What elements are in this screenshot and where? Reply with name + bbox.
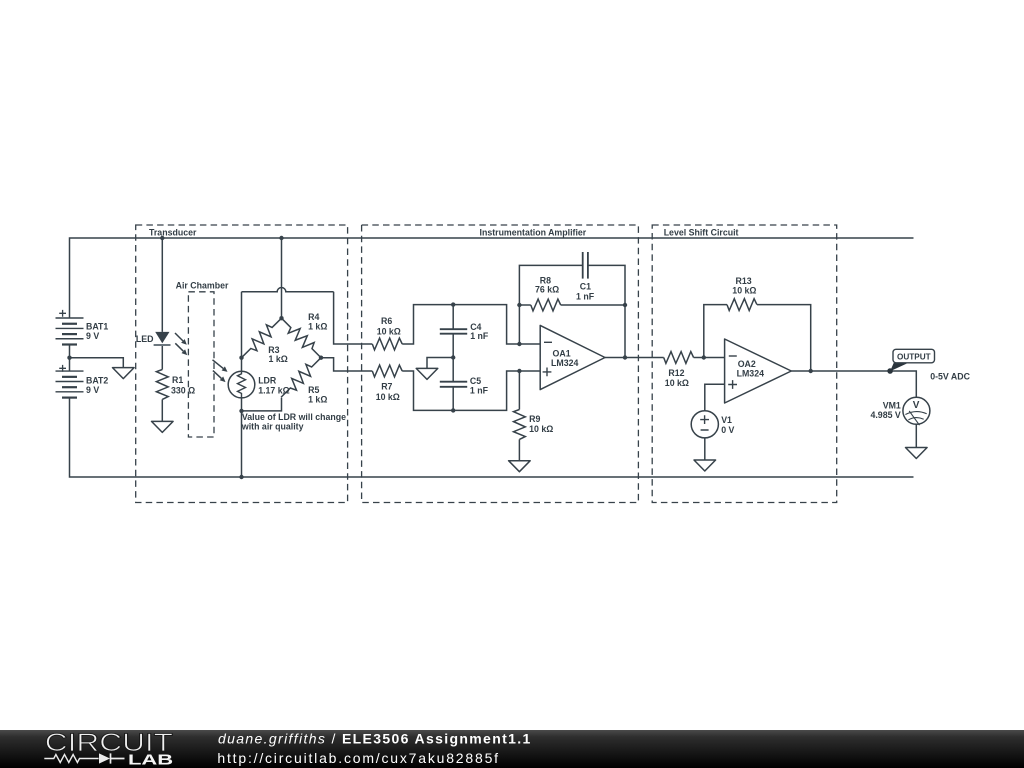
svg-text:1 kΩ: 1 kΩ: [308, 394, 327, 404]
svg-text:Transducer: Transducer: [149, 227, 197, 237]
svg-text:Level Shift Circuit: Level Shift Circuit: [664, 227, 739, 237]
svg-text:Instrumentation Amplifier: Instrumentation Amplifier: [480, 227, 587, 237]
svg-text:1 nF: 1 nF: [576, 291, 595, 301]
svg-text:1.17 kΩ: 1.17 kΩ: [258, 385, 290, 395]
svg-text:R7: R7: [381, 382, 392, 392]
svg-text:330 Ω: 330 Ω: [171, 385, 195, 395]
svg-text:10 kΩ: 10 kΩ: [732, 286, 756, 296]
svg-text:10 kΩ: 10 kΩ: [376, 392, 400, 402]
svg-text:LAB: LAB: [128, 752, 173, 768]
svg-text:0-5V ADC: 0-5V ADC: [930, 372, 970, 382]
svg-text:V: V: [913, 400, 920, 411]
svg-text:R1: R1: [172, 375, 183, 385]
svg-text:1 nF: 1 nF: [470, 331, 489, 341]
svg-text:1 kΩ: 1 kΩ: [308, 321, 327, 331]
svg-text:1 nF: 1 nF: [470, 385, 489, 395]
svg-text:R12: R12: [668, 368, 684, 378]
svg-text:9 V: 9 V: [86, 331, 99, 341]
svg-text:C5: C5: [470, 376, 481, 386]
svg-text:10 kΩ: 10 kΩ: [377, 326, 401, 336]
svg-text:R9: R9: [529, 414, 540, 424]
svg-text:C1: C1: [580, 282, 591, 292]
svg-text:Air Chamber: Air Chamber: [176, 280, 229, 290]
svg-text:R6: R6: [381, 316, 392, 326]
svg-text:LM324: LM324: [737, 369, 764, 379]
svg-text:R13: R13: [736, 276, 752, 286]
svg-text:duane.griffiths / ELE3506 Assi: duane.griffiths / ELE3506 Assignment1.1: [218, 731, 532, 747]
svg-text:http://circuitlab.com/cux7aku8: http://circuitlab.com/cux7aku82885f: [217, 750, 499, 766]
svg-text:V1: V1: [721, 415, 732, 425]
svg-text:76 kΩ: 76 kΩ: [535, 285, 559, 295]
svg-text:9 V: 9 V: [86, 385, 99, 395]
svg-text:10 kΩ: 10 kΩ: [665, 378, 689, 388]
svg-text:OA2: OA2: [738, 359, 756, 369]
svg-text:LED: LED: [136, 334, 154, 344]
svg-text:with air quality: with air quality: [241, 421, 304, 431]
svg-text:LDR: LDR: [258, 375, 277, 385]
svg-text:10 kΩ: 10 kΩ: [529, 424, 553, 434]
svg-text:4.985 V: 4.985 V: [870, 410, 900, 420]
svg-text:OUTPUT: OUTPUT: [897, 352, 931, 361]
svg-text:1 kΩ: 1 kΩ: [269, 354, 288, 364]
svg-text:LM324: LM324: [551, 358, 578, 368]
svg-text:0 V: 0 V: [721, 425, 734, 435]
